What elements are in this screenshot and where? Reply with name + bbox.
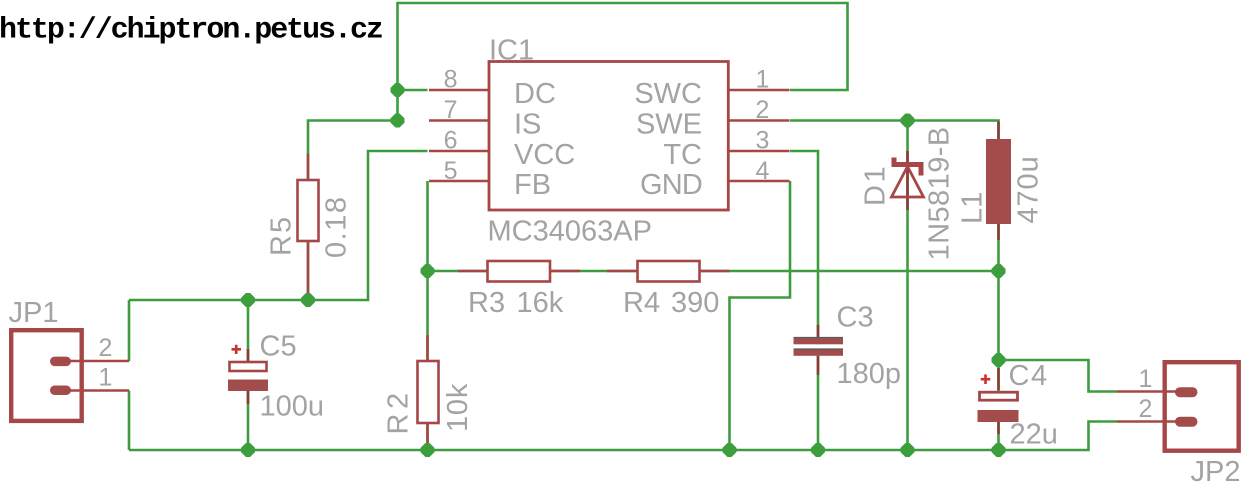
capacitor C4 plus — [981, 374, 991, 384]
wire FB pin5 down — [426, 181, 429, 271]
connector JP1 pin leads — [60, 361, 129, 391]
junction FB/R2/R3 — [421, 264, 435, 278]
wire R2 stem — [426, 271, 429, 450]
junction IS/R5 — [391, 114, 405, 128]
capacitor C5 top plate — [230, 362, 267, 371]
capacitor C5 plus — [232, 345, 242, 354]
svg-text:3: 3 — [756, 127, 770, 155]
svg-text:VCC: VCC — [514, 139, 575, 171]
svg-text:470u: 470u — [1013, 155, 1045, 223]
svg-text:JP2: JP2 — [1191, 456, 1241, 488]
resistor R4 — [638, 261, 700, 282]
svg-text:DC: DC — [514, 78, 556, 110]
diode D1 schottky bar — [894, 158, 921, 176]
svg-text:390: 390 — [671, 287, 719, 319]
resistor R5 — [298, 180, 319, 241]
wire feedback row R3 R4 — [428, 270, 999, 273]
svg-text:2: 2 — [99, 334, 113, 362]
junction C4 gnd — [992, 443, 1006, 457]
svg-text:R3: R3 — [468, 287, 505, 319]
resistor R3 leads — [458, 270, 580, 273]
svg-text:6: 6 — [444, 127, 458, 155]
junction L1/R4/out — [992, 264, 1006, 278]
svg-text:C4: C4 — [1009, 360, 1049, 392]
inductor L1 leads — [997, 122, 1000, 241]
IC1 pin leads right — [728, 90, 789, 181]
svg-text:1: 1 — [99, 364, 113, 392]
diode D1 leads — [906, 151, 909, 210]
wire Vin rail to VCC pin6 — [129, 151, 428, 300]
capacitor C4 leads — [997, 368, 1000, 434]
wire JP1 pin2 up — [128, 300, 131, 361]
svg-text:R5: R5 — [266, 215, 298, 256]
svg-text:C3: C3 — [837, 302, 874, 334]
svg-text:2: 2 — [756, 96, 770, 124]
svg-text:8: 8 — [444, 66, 458, 94]
junction R5/Vin rail — [301, 293, 315, 307]
svg-text:4: 4 — [756, 157, 770, 185]
capacitor C5 leads — [247, 349, 250, 404]
connector JP1 box — [11, 330, 82, 421]
svg-text:IS: IS — [514, 109, 541, 141]
svg-text:http://chiptron.petus.cz: http://chiptron.petus.cz — [0, 13, 382, 47]
wire D1 stem — [906, 121, 909, 451]
junction SWE/D1 — [901, 114, 915, 128]
svg-text:TC: TC — [663, 139, 702, 171]
capacitor C5 bottom plate — [228, 380, 268, 392]
svg-text:R4: R4 — [623, 287, 660, 319]
junction C5 gnd — [241, 443, 255, 457]
junction C5 plus rail — [241, 293, 255, 307]
capacitor C4 top plate — [980, 392, 1018, 400]
svg-text:1: 1 — [1139, 365, 1153, 393]
inductor L1 — [986, 139, 1011, 224]
svg-text:D1: D1 — [860, 164, 892, 206]
svg-text:SWC: SWC — [634, 78, 702, 110]
svg-text:22u: 22u — [1010, 419, 1058, 451]
connector JP2 pads — [1175, 387, 1198, 397]
capacitor C3 leads — [817, 325, 820, 375]
wire SWE pin2 to L1 — [790, 121, 999, 272]
wire C5 stem — [247, 300, 250, 450]
resistor R3 — [488, 261, 551, 282]
svg-text:IC1: IC1 — [489, 35, 534, 67]
svg-text:7: 7 — [444, 96, 458, 124]
svg-text:2: 2 — [1139, 395, 1153, 423]
wire output to JP2 pin1 — [999, 360, 1118, 392]
svg-text:5: 5 — [444, 157, 458, 185]
wire IS to R5 top — [308, 121, 398, 181]
svg-text:0.18: 0.18 — [321, 196, 353, 258]
junction R2 gnd — [421, 443, 435, 457]
diode D1 triangle — [892, 167, 924, 198]
resistor R5 leads — [307, 154, 310, 294]
op-amp IC1 box — [489, 62, 728, 211]
op IC1 pin leads left — [429, 90, 489, 181]
wire JP1 pin1 down to ground rail — [128, 391, 131, 451]
wire ground rail — [129, 422, 1117, 451]
svg-text:GND: GND — [640, 169, 702, 201]
svg-text:L1: L1 — [957, 192, 989, 224]
svg-text:R2: R2 — [383, 388, 415, 434]
connector JP2 box — [1165, 362, 1239, 451]
wire top loop SWC to DC/IS — [398, 3, 848, 121]
svg-text:SWE: SWE — [636, 109, 702, 141]
svg-text:180p: 180p — [837, 358, 902, 390]
wire TC pin3 to C3 — [790, 151, 818, 450]
svg-text:16k: 16k — [517, 287, 564, 319]
wire R5 bottom to Vin rail — [307, 241, 310, 300]
resistor R4 leads — [607, 270, 730, 273]
svg-text:MC34063AP: MC34063AP — [488, 216, 652, 248]
wire GND pin4 to rail — [730, 181, 791, 450]
capacitor C4 bottom plate — [978, 410, 1019, 422]
resistor R2 leads — [426, 335, 429, 443]
resistor R2 — [418, 361, 439, 423]
svg-text:1N5819-B: 1N5819-B — [924, 126, 956, 260]
svg-text:FB: FB — [514, 169, 551, 201]
junction C3 gnd — [811, 443, 825, 457]
connector JP2 pin leads — [1117, 392, 1185, 422]
svg-text:10k: 10k — [442, 383, 474, 432]
wire pin8 DC stub — [398, 89, 428, 92]
svg-text:1: 1 — [756, 66, 770, 94]
junction pin4 gnd — [723, 443, 737, 457]
svg-text:JP1: JP1 — [9, 297, 59, 329]
junction D1 gnd — [901, 443, 915, 457]
junction DC/top-loop — [391, 83, 405, 97]
wire output node to C4 and rail — [997, 271, 1000, 450]
connector JP1 pads — [50, 357, 71, 367]
svg-text:C5: C5 — [260, 331, 297, 363]
capacitor C3 plates — [794, 338, 844, 345]
svg-text:100u: 100u — [260, 391, 325, 423]
junction out/JP2 branch — [992, 353, 1006, 367]
